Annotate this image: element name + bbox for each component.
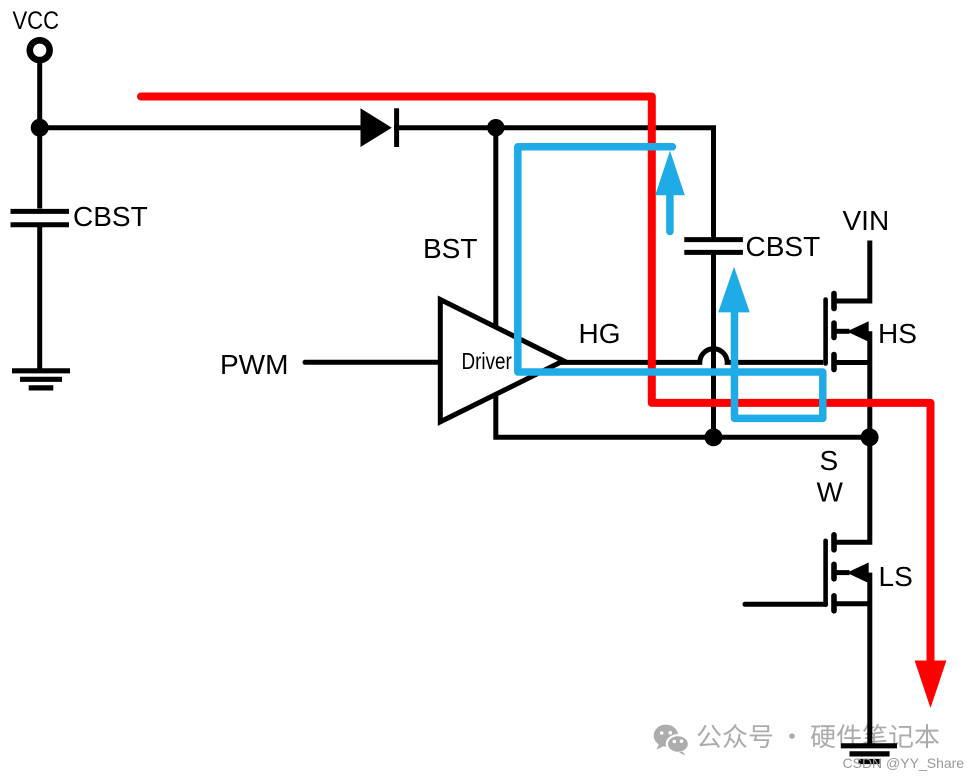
svg-text:BST: BST (423, 233, 477, 264)
wire red charge path with arrow (141, 97, 946, 709)
svg-text:PWM: PWM (220, 349, 288, 380)
wire VCC vertical (37, 60, 42, 209)
watermark text (697, 724, 939, 748)
svg-text:S: S (820, 445, 839, 476)
wire VIN to HS drain (837, 241, 870, 302)
svg-text:VIN: VIN (843, 205, 890, 236)
svg-text:HS: HS (878, 318, 917, 349)
capacitor CBST left (11, 211, 70, 224)
junction dot SW right (861, 428, 879, 446)
ground left (12, 371, 70, 388)
svg-text:Driver: Driver (462, 348, 513, 374)
ground right (841, 746, 897, 762)
wire CBST right bottom lead (711, 253, 716, 437)
junction dot VCC node (31, 119, 49, 137)
wire BST node down through driver to SW rail (496, 128, 870, 438)
transistor Q2 LS (826, 535, 870, 746)
wire CBST left to ground (37, 227, 42, 369)
wire LS gate stub (745, 602, 826, 607)
svg-text:CSDN @YY_Share: CSDN @YY_Share (843, 755, 965, 771)
svg-text:VCC: VCC (13, 7, 60, 35)
junction dot BST node (487, 119, 504, 136)
wire PWM input (305, 360, 443, 365)
wire VCC to diode anode (40, 125, 362, 130)
op-amp U1 driver (440, 300, 563, 422)
blue flow arrow top (655, 151, 685, 232)
VCC terminal (30, 40, 50, 60)
svg-text:CBST: CBST (746, 231, 821, 262)
transistor Q1 HS (826, 294, 870, 438)
diode D1 (361, 108, 397, 147)
wire diode cathode to BST node and CBST top (394, 128, 714, 239)
capacitor CBST right (684, 240, 743, 253)
svg-text:HG: HG (579, 318, 621, 349)
watermark wechat icon (654, 725, 689, 756)
junction dot SW left (705, 428, 723, 446)
wire blue gate-drive loop with arrow (518, 147, 823, 419)
svg-text:CBST: CBST (73, 201, 148, 232)
wire HG with hop over CBST branch (560, 349, 823, 363)
svg-text:LS: LS (879, 561, 913, 592)
wire SW to LS drain (837, 437, 870, 542)
svg-text:W: W (817, 477, 844, 508)
